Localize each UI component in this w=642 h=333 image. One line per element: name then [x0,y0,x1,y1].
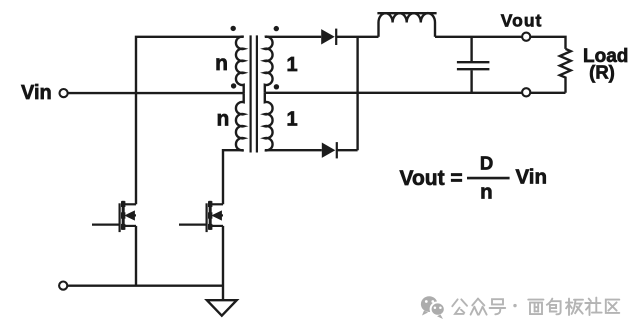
svg-text:Vin: Vin [516,165,548,188]
svg-text:1: 1 [287,109,298,131]
svg-text:Vin: Vin [21,82,52,104]
svg-text:n: n [215,52,228,75]
svg-text:(R): (R) [589,61,615,82]
svg-text:n: n [480,180,493,203]
svg-text:D: D [480,152,493,173]
svg-text:1: 1 [287,54,298,76]
svg-text:Vout: Vout [501,10,543,30]
svg-text:Vout =: Vout = [400,167,463,190]
svg-text:n: n [216,107,229,130]
